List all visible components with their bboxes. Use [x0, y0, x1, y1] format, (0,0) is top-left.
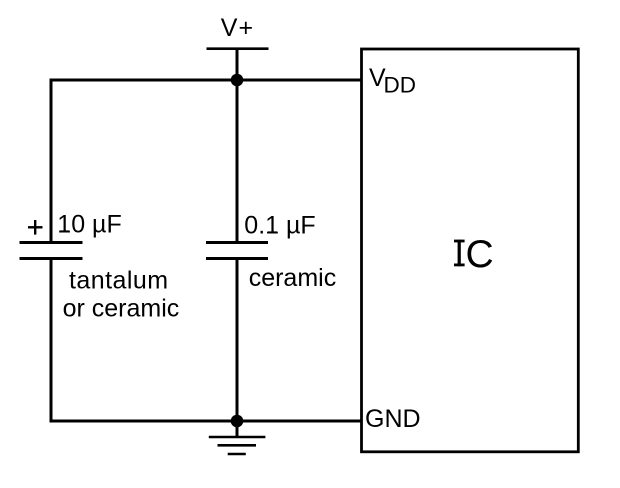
svg-text:GND: GND: [365, 405, 421, 433]
svg-text:0.1 µF: 0.1 µF: [244, 212, 315, 240]
wire: middle branch upper lead: [236, 80, 239, 243]
svg-text:or ceramic: or ceramic: [63, 295, 180, 323]
power rail bar V+: [207, 47, 269, 50]
svg-text:DD: DD: [384, 73, 417, 98]
svg-text:V+: V+: [221, 14, 255, 42]
svg-text:ceramic: ceramic: [249, 264, 337, 292]
svg-text:C: C: [466, 233, 494, 276]
C2 value label 0.1 uF: [244, 212, 315, 240]
C1 polarity plus sign: [28, 220, 43, 235]
C1 type label tantalum or ceramic: [63, 267, 180, 323]
C1 value label 10 uF: [57, 211, 121, 239]
pin label VDD: [369, 64, 416, 98]
svg-text:10 µF: 10 µF: [57, 211, 121, 239]
junction: ground node dot: [231, 415, 244, 428]
wire: left branch lower lead: [50, 259, 53, 423]
wire: ground stub: [236, 421, 239, 437]
capacitor C1 plates (10 uF): [20, 243, 83, 259]
svg-text:tantalum: tantalum: [69, 267, 169, 295]
wire: top rail from left corner to IC VDD pin: [50, 79, 362, 82]
ground symbol: [209, 437, 266, 454]
wire: bottom rail from left corner to IC GND pin: [51, 420, 362, 423]
net label V+: [221, 14, 255, 42]
IC U1 body: [362, 49, 579, 452]
wire: V+ stub down to top rail: [236, 49, 239, 80]
wire: middle branch lower lead: [236, 259, 239, 422]
C2 type label ceramic: [249, 264, 337, 292]
junction: top node dot: [231, 74, 244, 87]
capacitor C2 plates (0.1 uF): [206, 243, 268, 259]
pin label GND: [365, 405, 421, 433]
IC name label: [454, 233, 494, 276]
wire: left branch upper lead: [50, 79, 53, 243]
